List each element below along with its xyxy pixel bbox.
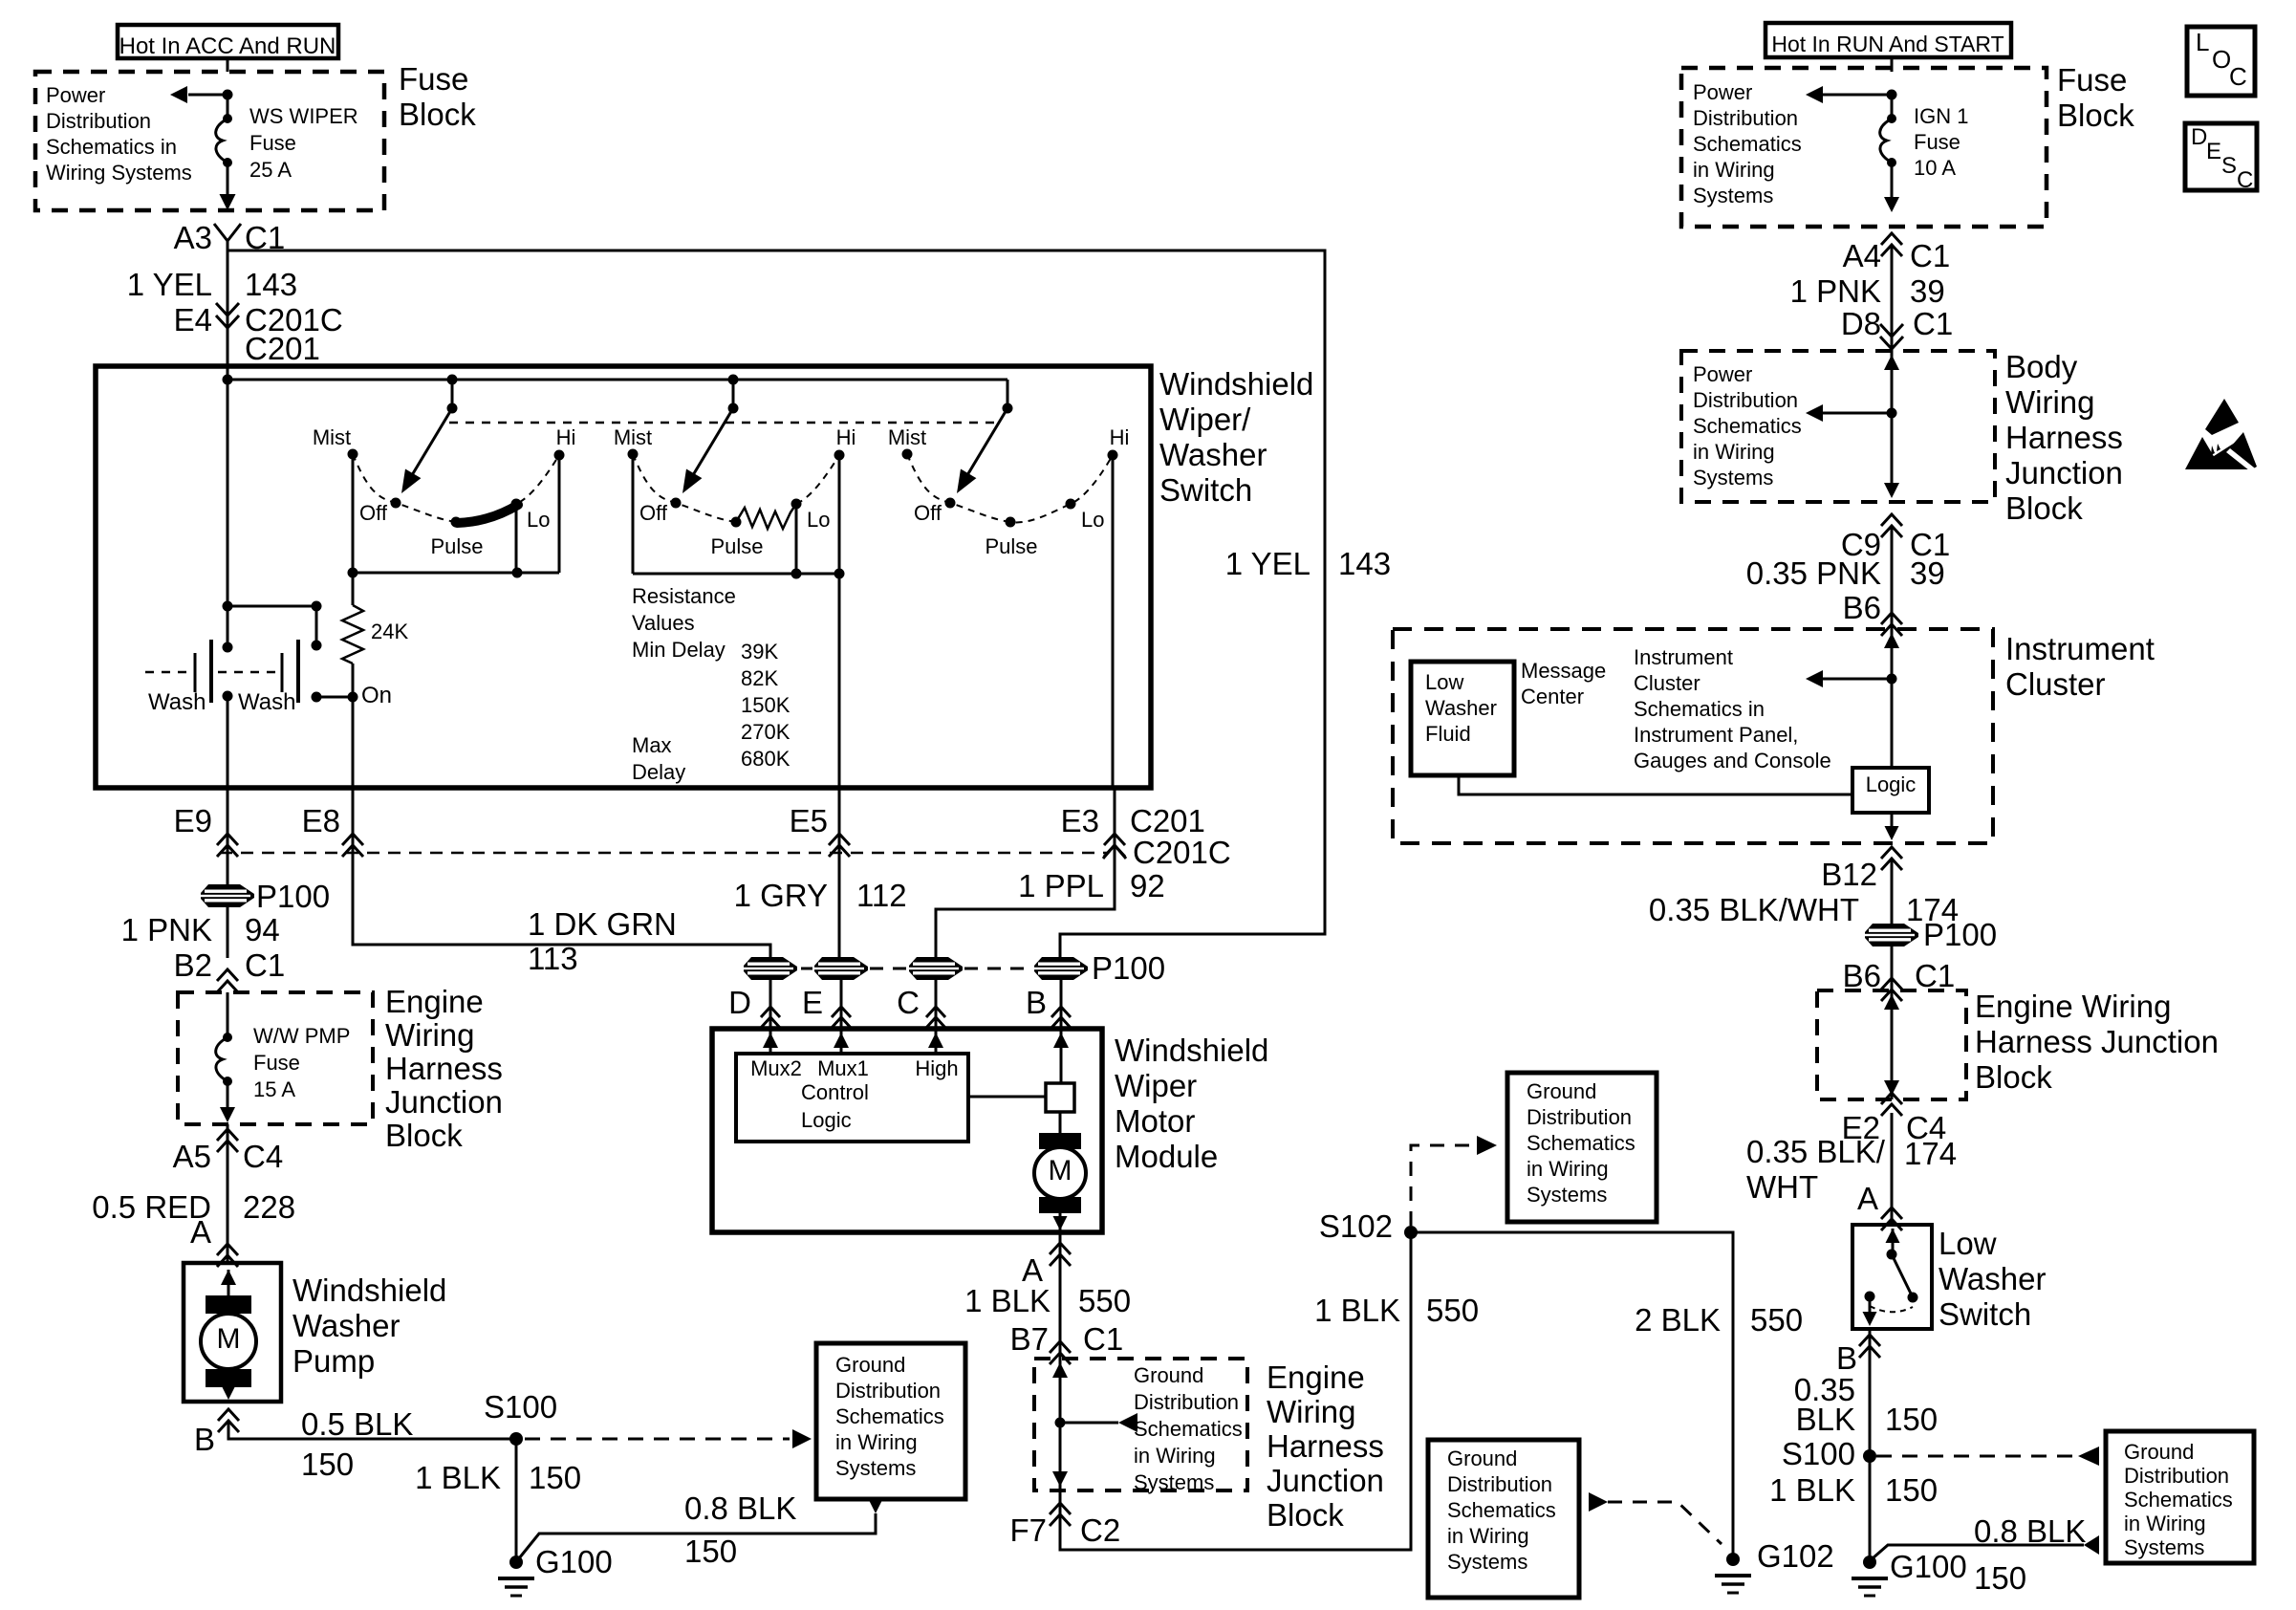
wire label: 1 BLK (right): [1769, 1472, 1855, 1508]
label: 24K: [371, 620, 408, 643]
wire: Lo1 drop: [515, 504, 518, 573]
svg-text:680K: 680K: [741, 747, 791, 771]
wire: Hi2 drop / E5 feed: [838, 455, 841, 788]
svg-text:Wiring: Wiring: [385, 1017, 475, 1053]
svg-text:Mux2: Mux2: [750, 1056, 802, 1080]
svg-text:A: A: [190, 1214, 211, 1250]
svg-text:Schematics: Schematics: [1693, 414, 1802, 438]
svg-text:Systems: Systems: [2124, 1535, 2204, 1559]
svg-text:Module: Module: [1115, 1139, 1218, 1174]
wire: pin B stub: [1060, 979, 1063, 1029]
wire label: 1 DK GRN: [528, 906, 677, 942]
wire label: 0.35: [1794, 1372, 1855, 1407]
ground distribution schematics box (bottom center): [1428, 1440, 1579, 1598]
svg-text:Low: Low: [1939, 1226, 1997, 1261]
label: Mux1: [817, 1056, 869, 1080]
svg-text:Windshield: Windshield: [1115, 1033, 1268, 1068]
wire label: 112: [856, 878, 907, 913]
reference arrow (instrument cluster): [1806, 670, 1892, 687]
svg-text:M: M: [1049, 1155, 1072, 1186]
svg-text:550: 550: [1426, 1293, 1479, 1328]
svg-text:10 A: 10 A: [1914, 156, 1956, 180]
wire: wash branch top: [227, 601, 322, 612]
node Mist (switch 1): [313, 425, 358, 460]
svg-text:C: C: [897, 985, 920, 1020]
wire: through body junction block: [1884, 351, 1899, 498]
svg-text:1 YEL: 1 YEL: [127, 267, 212, 302]
text: Power Distribution Schematics in Wiring Systems (right fuse block): [1693, 80, 1802, 207]
switch arm 1 pivot: [447, 375, 458, 414]
svg-text:Windshield: Windshield: [292, 1273, 446, 1308]
wire: pin C stub: [935, 979, 938, 1029]
svg-text:Pulse: Pulse: [430, 534, 483, 558]
svg-text:Ground: Ground: [2124, 1440, 2194, 1464]
label: B6 (cluster in): [1843, 590, 1881, 625]
svg-text:E9: E9: [174, 803, 212, 838]
svg-text:S100: S100: [1782, 1436, 1855, 1471]
engine wiring harness junction block (right) dashed box: [1817, 990, 1966, 1099]
wire: through right junction block: [1884, 990, 1899, 1099]
svg-text:S102: S102: [1319, 1208, 1393, 1244]
text: Instrument Cluster Schematics in Instrument Panel, Gauges and Console: [1634, 645, 1831, 772]
fuse IGN 1 10 A: [1880, 114, 1896, 167]
logic box: [1852, 768, 1929, 813]
svg-text:Low: Low: [1425, 670, 1463, 694]
svg-text:F7: F7: [1009, 1512, 1047, 1548]
pin letter D: [728, 985, 780, 1028]
svg-text:Pump: Pump: [292, 1343, 375, 1379]
label: C1 (right p100): [1915, 958, 1955, 993]
svg-text:Hi: Hi: [836, 425, 856, 449]
svg-text:Schematics: Schematics: [2124, 1488, 2233, 1512]
svg-text:B6: B6: [1843, 958, 1881, 993]
wash switch left (plates): [195, 640, 233, 703]
wire: E5 to pin E: [838, 788, 841, 958]
pin arrow B: [1053, 1029, 1069, 1084]
svg-text:Block: Block: [2005, 490, 2083, 526]
switch arm 2: [682, 408, 733, 493]
svg-text:Pulse: Pulse: [985, 534, 1037, 558]
node Lo (switch 3): [1066, 499, 1105, 533]
svg-text:Washer: Washer: [1939, 1261, 2046, 1296]
svg-text:150: 150: [1885, 1402, 1938, 1437]
wire: E2 to low washer switch: [1891, 1113, 1894, 1225]
wire label: 1 BLK (left): [415, 1460, 501, 1495]
svg-text:Cluster: Cluster: [2005, 666, 2106, 702]
svg-text:C1: C1: [1910, 238, 1950, 273]
svg-text:Windshield: Windshield: [1159, 366, 1313, 402]
wire: E9 to P100: [227, 788, 229, 958]
svg-text:Distribution: Distribution: [2124, 1464, 2229, 1488]
svg-text:228: 228: [243, 1189, 295, 1225]
wire: washer switch B to G100: [1869, 1329, 1872, 1562]
wire: logic out: [1885, 813, 1899, 840]
svg-text:in Wiring: in Wiring: [1693, 158, 1775, 182]
wire label: 0.8 BLK (right): [1974, 1513, 2086, 1549]
relay square: [1046, 1083, 1074, 1112]
resistor (switch 2 pulse-lo): [736, 504, 796, 529]
svg-text:24K: 24K: [371, 620, 408, 643]
svg-text:Instrument: Instrument: [1634, 645, 1733, 669]
connector mark B (pump): [194, 1409, 239, 1457]
label: Control Logic: [801, 1080, 869, 1132]
svg-text:Mist: Mist: [313, 425, 351, 449]
svg-text:Schematics: Schematics: [1447, 1498, 1556, 1522]
wire label: 1 BLK: [964, 1283, 1051, 1318]
label: C1: [245, 220, 285, 255]
instrument cluster dashed box: [1393, 629, 1993, 843]
wire label: 150 (0.8 right): [1974, 1560, 2026, 1596]
svg-text:Engine: Engine: [385, 984, 484, 1019]
wire label: 92: [1130, 868, 1165, 903]
wire: A4 to D8: [1891, 245, 1894, 351]
connector C201 dashed line: [220, 852, 1109, 855]
label: W/W PMP Fuse 15 A: [253, 1024, 350, 1101]
body wiring harness junction block dashed box: [1681, 351, 1995, 502]
svg-text:Washer: Washer: [1159, 437, 1267, 472]
svg-text:W/W PMP: W/W PMP: [253, 1024, 350, 1048]
connector P100 (washer pump feed): [201, 879, 330, 914]
svg-text:Block: Block: [1975, 1059, 2052, 1095]
power tag: Hot In RUN And START: [1765, 23, 2011, 57]
wire label: 174: [1906, 892, 1959, 927]
svg-text:Schematics: Schematics: [1527, 1131, 1635, 1155]
wire: logic to relay square: [968, 1096, 1046, 1099]
splice S100 (right): [1782, 1436, 1876, 1471]
svg-text:B: B: [1836, 1340, 1857, 1376]
svg-text:Hi: Hi: [1110, 425, 1130, 449]
svg-text:Lo: Lo: [1081, 508, 1104, 532]
wire label: 550 (S102): [1426, 1293, 1479, 1328]
wire: pin E stub: [840, 979, 843, 1029]
svg-text:0.35 BLK/WHT: 0.35 BLK/WHT: [1649, 892, 1859, 927]
svg-text:C1: C1: [1083, 1321, 1123, 1357]
wire: feed to wash switches: [223, 371, 233, 647]
reference arrow: ground distribution (in block): [1060, 1413, 1137, 1432]
node Hi (switch 2): [834, 425, 856, 461]
wire label: 113: [528, 941, 578, 976]
dashed reference from S100 (right): [1876, 1447, 2099, 1466]
svg-text:in Wiring: in Wiring: [2124, 1512, 2206, 1535]
svg-text:C1: C1: [245, 947, 285, 983]
svg-text:Schematics in: Schematics in: [46, 135, 177, 159]
svg-text:L: L: [2196, 28, 2209, 56]
wire with arrow into fuse block edge: [220, 163, 236, 210]
svg-text:C: C: [2237, 167, 2253, 193]
node Hi (switch 1): [554, 425, 576, 461]
label: C1: [245, 947, 285, 983]
svg-text:Schematics in: Schematics in: [1634, 697, 1765, 721]
svg-text:G100: G100: [535, 1544, 613, 1579]
svg-text:0.35 PNK: 0.35 PNK: [1746, 555, 1881, 591]
svg-text:Distribution: Distribution: [1693, 106, 1798, 130]
wire label: 228: [243, 1189, 295, 1225]
text: Resistance Values Min Delay Max Delay: [632, 584, 736, 784]
node Lo (switch 2): [791, 499, 831, 533]
svg-text:C1: C1: [1913, 306, 1953, 341]
wire label: 150 (0.8 BLK left): [684, 1534, 737, 1569]
wire: A5 to pump: [227, 1124, 229, 1263]
label: Wash (left): [148, 689, 206, 715]
low washer switch contacts: [1863, 1229, 1918, 1326]
svg-text:Wash: Wash: [238, 689, 295, 715]
svg-text:Harness: Harness: [385, 1051, 503, 1086]
svg-text:S100: S100: [484, 1389, 557, 1425]
svg-text:113: 113: [528, 941, 578, 976]
svg-text:WS WIPER: WS WIPER: [249, 104, 358, 128]
wash mechanical dashed line: [145, 671, 277, 674]
svg-text:Junction: Junction: [2005, 455, 2123, 490]
svg-text:1 YEL: 1 YEL: [1225, 546, 1310, 581]
wire: Lo2 drop: [795, 504, 798, 574]
connector mark B (washer switch): [1836, 1335, 1880, 1376]
svg-text:150: 150: [1885, 1472, 1938, 1508]
svg-text:Block: Block: [1267, 1497, 1344, 1533]
wire label: 0.5 BLK: [301, 1406, 413, 1442]
wire label: 0.8 BLK (left): [684, 1490, 796, 1526]
svg-text:E5: E5: [790, 803, 828, 838]
washer pump motor: [201, 1270, 256, 1400]
svg-text:Power: Power: [1693, 362, 1752, 386]
svg-text:Systems: Systems: [835, 1456, 916, 1480]
svg-text:15 A: 15 A: [253, 1077, 295, 1101]
svg-text:Off: Off: [359, 501, 388, 525]
label: B2: [174, 947, 212, 983]
wire: motor to module edge: [1053, 1213, 1068, 1232]
svg-text:Wiper: Wiper: [1115, 1068, 1197, 1103]
wire: from rail1 to resistor: [352, 573, 355, 605]
svg-text:Systems: Systems: [1693, 466, 1773, 490]
svg-text:Wash: Wash: [148, 689, 206, 715]
ground distribution schematics box (top center): [1507, 1073, 1657, 1222]
svg-text:B12: B12: [1821, 857, 1877, 892]
svg-text:Max: Max: [632, 733, 672, 757]
svg-text:Logic: Logic: [801, 1108, 852, 1132]
svg-text:2 BLK: 2 BLK: [1635, 1302, 1721, 1338]
connector mark E9: [174, 803, 238, 857]
label: WS WIPER Fuse 25 A: [249, 104, 358, 182]
dashed contact arc (switch 1): [353, 454, 559, 522]
wire: switch2 bottom rail: [633, 569, 845, 579]
label: Instrument Cluster: [2005, 631, 2155, 702]
label: B6 (below P100): [1843, 958, 1881, 993]
label: Body Wiring Harness Junction Block: [2005, 349, 2123, 526]
label: Engine Wiring Harness Junction Block (left): [385, 984, 503, 1153]
svg-text:174: 174: [1904, 1136, 1957, 1171]
svg-text:Distribution: Distribution: [1134, 1390, 1239, 1414]
wire label: 1 GRY: [734, 878, 828, 913]
svg-text:1 BLK: 1 BLK: [1314, 1293, 1400, 1328]
node Hi (switch 3): [1108, 425, 1130, 461]
svg-text:1 PPL: 1 PPL: [1018, 868, 1104, 903]
svg-text:Mist: Mist: [614, 425, 652, 449]
engine wiring harness junction block (left) dashed box: [178, 992, 373, 1124]
wash switch right (plates): [282, 640, 322, 703]
svg-text:Resistance: Resistance: [632, 584, 736, 608]
windshield washer pump box: [184, 1263, 281, 1402]
pin label A (washer switch): [1857, 1181, 1878, 1216]
wire label: 150 (1 blk right): [1885, 1472, 1938, 1508]
connector mark A (motor module): [1022, 1243, 1071, 1288]
svg-text:150: 150: [1974, 1560, 2026, 1596]
svg-text:Junction: Junction: [385, 1084, 503, 1120]
svg-text:25 A: 25 A: [249, 158, 292, 182]
svg-text:B7: B7: [1010, 1321, 1049, 1357]
arrow up on E3 wire at C201C: [1103, 845, 1126, 862]
label: C201C: [245, 302, 343, 337]
svg-text:Junction: Junction: [1267, 1463, 1384, 1498]
resistor 24K: [342, 605, 363, 664]
svg-text:Ground: Ground: [835, 1353, 905, 1377]
svg-text:Wiring Systems: Wiring Systems: [46, 161, 192, 185]
reference arrow to Power Distribution (right): [1806, 86, 1897, 103]
pin arrow High: [928, 1029, 943, 1054]
svg-text:Systems: Systems: [1447, 1550, 1527, 1574]
svg-text:B2: B2: [174, 947, 212, 983]
pin arrow Mux1: [834, 1029, 849, 1054]
connector mark B6/C1: [1881, 978, 1902, 1001]
low washer fluid box: [1411, 662, 1514, 775]
svg-text:Cluster: Cluster: [1634, 671, 1700, 695]
node Pulse (switch 3): [985, 517, 1037, 559]
node On: [348, 683, 393, 708]
svg-text:Hi: Hi: [556, 425, 576, 449]
connector mark E3: [1061, 803, 1125, 857]
wire: E8 to pin D (1 DK GRN 113): [353, 788, 770, 958]
svg-text:0.35 BLK/: 0.35 BLK/: [1746, 1134, 1886, 1169]
svg-text:Harness Junction: Harness Junction: [1975, 1024, 2219, 1059]
svg-text:G102: G102: [1757, 1538, 1834, 1574]
svg-text:Block: Block: [2057, 98, 2134, 133]
svg-text:A5: A5: [173, 1139, 211, 1174]
svg-text:39: 39: [1910, 555, 1945, 591]
label: Engine Wiring Harness Junction Block (center): [1267, 1360, 1384, 1533]
svg-text:A3: A3: [174, 220, 212, 255]
pin letter C: [897, 985, 945, 1028]
svg-text:S: S: [2221, 153, 2237, 179]
svg-text:C2: C2: [1080, 1512, 1120, 1548]
wire: supply rail inside switch: [223, 375, 1008, 385]
svg-text:1 GRY: 1 GRY: [734, 878, 828, 913]
wire label: 174 (washer sw): [1904, 1136, 1957, 1171]
wire: E3 to pin C (1 PPL 92): [936, 788, 1115, 958]
label: Wash (right): [238, 689, 295, 715]
pin letter E: [802, 985, 851, 1028]
ground distribution schematics box (bottom left): [816, 1343, 965, 1499]
label: Windshield Wiper/Washer Switch: [1159, 366, 1313, 508]
ground G102: [1715, 1538, 1834, 1593]
wire label: 39 (pnk): [1910, 555, 1945, 591]
node Mist (switch 2): [614, 425, 652, 460]
svg-text:Fuse: Fuse: [249, 131, 296, 155]
svg-text:Block: Block: [385, 1118, 463, 1153]
svg-text:0.8 BLK: 0.8 BLK: [684, 1490, 796, 1526]
fuse block (right) dashed box: [1681, 68, 2047, 227]
svg-text:A: A: [1857, 1181, 1878, 1216]
svg-text:Lo: Lo: [807, 508, 830, 532]
power tag: Hot In ACC And RUN: [118, 25, 338, 59]
svg-text:Engine Wiring: Engine Wiring: [1975, 989, 2171, 1024]
wire label: WHT: [1746, 1169, 1818, 1205]
svg-text:P100: P100: [1923, 917, 1997, 952]
wire label: 143: [245, 267, 297, 302]
svg-text:82K: 82K: [741, 666, 778, 690]
text: Power Distribution Schematics in Wiring Systems (left fuse block): [46, 83, 192, 185]
svg-text:Washer: Washer: [292, 1308, 400, 1343]
wire: low washer fluid to logic: [1459, 775, 1852, 794]
svg-text:Hot In ACC And RUN: Hot In ACC And RUN: [119, 33, 336, 59]
svg-text:Wiper/: Wiper/: [1159, 402, 1251, 437]
wire: resistor to E8 exit: [352, 664, 355, 788]
svg-text:E: E: [802, 985, 823, 1020]
connector mark A5/C4: [173, 1129, 284, 1174]
svg-text:39: 39: [1910, 273, 1945, 309]
svg-text:0.5 BLK: 0.5 BLK: [301, 1406, 413, 1442]
svg-text:0.8 BLK: 0.8 BLK: [1974, 1513, 2086, 1549]
connector mark A (washer switch): [1881, 1207, 1902, 1230]
wire: through junction block: [1052, 1359, 1068, 1490]
svg-text:Engine: Engine: [1267, 1360, 1365, 1395]
svg-text:Min Delay: Min Delay: [632, 638, 726, 662]
svg-text:Wiring: Wiring: [1267, 1394, 1356, 1429]
svg-text:On: On: [361, 683, 392, 708]
svg-text:Motor: Motor: [1115, 1103, 1195, 1139]
wire: into cluster logic: [1884, 629, 1899, 768]
connector mark B2/C1: [217, 969, 238, 992]
svg-text:in Wiring: in Wiring: [1693, 440, 1775, 464]
svg-text:Instrument: Instrument: [2005, 631, 2155, 666]
wire: Hi1 drop: [558, 455, 561, 573]
text: Power Distribution Schematics in Wiring Systems (body block): [1693, 362, 1802, 490]
svg-text:143: 143: [1338, 546, 1391, 581]
svg-text:Fuse: Fuse: [1914, 130, 1960, 154]
svg-text:Harness: Harness: [1267, 1428, 1384, 1464]
svg-text:Fuse: Fuse: [399, 61, 468, 97]
svg-text:Fluid: Fluid: [1425, 722, 1471, 746]
wire: right wash to On: [316, 696, 353, 699]
text: Ground Distribution Schematics in Wiring Systems (in junction block): [1134, 1363, 1243, 1494]
svg-text:Distribution: Distribution: [1527, 1105, 1632, 1129]
wire label: 1 BLK (S102): [1314, 1293, 1400, 1328]
wire: B12 to P100: [1891, 859, 1894, 990]
svg-text:BLK: BLK: [1796, 1402, 1855, 1437]
fuse WS WIPER 25 A: [216, 114, 232, 167]
svg-text:Schematics: Schematics: [835, 1404, 944, 1428]
connector P100 (right): [1865, 917, 1997, 952]
node Pulse (switch 2): [710, 517, 763, 559]
wire label: 2 BLK: [1635, 1302, 1721, 1338]
svg-text:P100: P100: [256, 879, 330, 914]
svg-text:Systems: Systems: [1527, 1183, 1607, 1207]
label: C201C (right): [1133, 835, 1231, 870]
svg-text:Off: Off: [914, 501, 942, 525]
wire: pin D stub: [769, 979, 772, 1029]
connector P100 pin D: [744, 957, 797, 980]
wire label: 1 YEL (right): [1225, 546, 1310, 581]
svg-text:150: 150: [684, 1534, 737, 1569]
svg-text:C201: C201: [1130, 803, 1205, 838]
wire: into junction block: [227, 992, 229, 1037]
svg-text:1 PNK: 1 PNK: [1790, 273, 1881, 309]
svg-text:Block: Block: [399, 97, 476, 132]
connector mark E5: [790, 803, 850, 857]
connector P100 pin E: [814, 957, 868, 980]
svg-text:270K: 270K: [741, 720, 791, 744]
connector P100 pin C: [909, 957, 963, 980]
svg-text:Ground: Ground: [1134, 1363, 1203, 1387]
wire label: 143 (right): [1338, 546, 1391, 581]
label: P100: [1092, 950, 1165, 986]
